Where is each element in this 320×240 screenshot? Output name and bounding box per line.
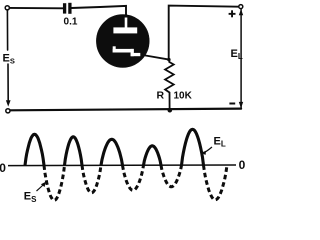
capacitor C 0.1 (left plate) xyxy=(63,3,66,13)
svg-text:0: 0 xyxy=(0,161,6,175)
svg-text:10K: 10K xyxy=(174,90,193,101)
label + (output polarity) xyxy=(229,13,236,15)
tube plate lead (white, inside envelope) xyxy=(125,18,128,29)
arrowhead (right wire bottom, pointing down at rail) xyxy=(239,102,243,108)
junction (resistor bottom on rail) xyxy=(168,108,173,113)
tube V1 (envelope, filled) xyxy=(96,15,149,68)
waveform Es (dashed, negative half-cycles) xyxy=(44,165,227,200)
svg-text:R: R xyxy=(157,90,165,102)
arrow (EL label to solid curve) xyxy=(204,147,213,153)
terminal (input, top-left) xyxy=(5,6,9,10)
waveform axis xyxy=(8,164,236,167)
wire (top-left terminal to capacitor) xyxy=(10,7,63,9)
wire (tube cathode to resistor-top junction, diagonal) xyxy=(146,56,170,60)
arrow (Es label to dashed curve) xyxy=(37,185,44,192)
capacitor C 0.1 (right plate) xyxy=(68,3,71,14)
wire (left rail) xyxy=(6,10,9,100)
junction (resistor top) xyxy=(167,58,170,61)
terminal (bottom-left) xyxy=(6,109,10,113)
resistor R xyxy=(165,60,174,111)
wire (right edge, output terminal down to bottom rail) xyxy=(240,10,242,109)
terminal (output, top-right) xyxy=(239,5,243,9)
label - (output polarity) xyxy=(229,103,235,105)
tube plate bar (white) xyxy=(113,27,137,33)
arrowhead (right wire top, pointing up at output terminal) xyxy=(239,9,243,15)
wire (resistor top junction up to top rail, then right to output terminal) xyxy=(169,6,239,60)
wire (bottom rail) xyxy=(10,109,241,111)
arrowhead (left rail, pointing down) xyxy=(6,100,11,106)
waveform EL (solid, positive half-cycles) xyxy=(25,129,204,165)
tube cathode (white stepped bar) xyxy=(113,46,116,52)
svg-text:0: 0 xyxy=(239,158,246,172)
wire (capacitor to tube plate lead, turns down into tube) xyxy=(72,6,127,17)
svg-text:0.1: 0.1 xyxy=(64,17,78,28)
